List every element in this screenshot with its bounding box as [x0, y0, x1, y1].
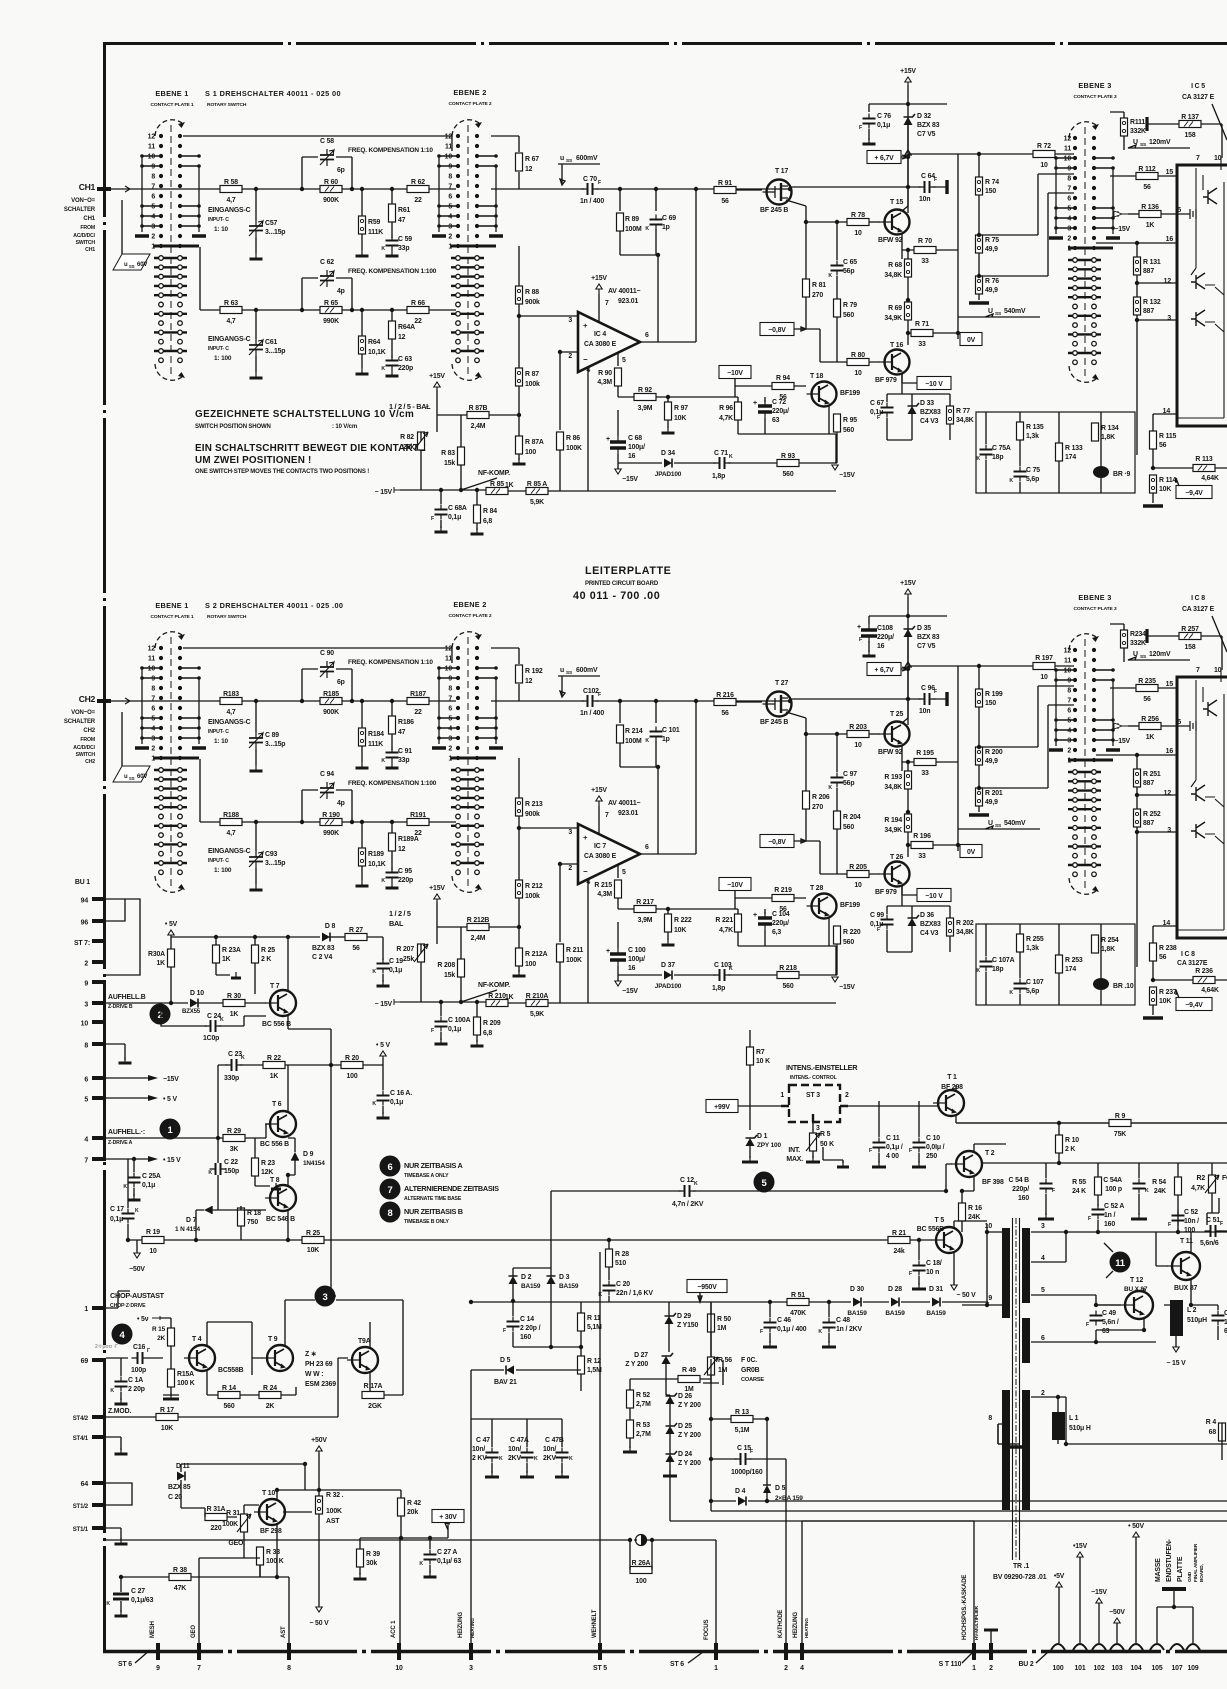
-15V supply under C68: [617, 980, 619, 986]
circle 4: [112, 1324, 133, 1345]
svg-text:EBENE 3: EBENE 3: [1078, 593, 1111, 602]
resistor R 222 10K: [665, 914, 672, 932]
svg-text:+50V: +50V: [311, 1437, 327, 1444]
capacitor C22 150p: [216, 1163, 221, 1175]
capacitor C54B 220p/160: [1040, 1184, 1053, 1189]
svg-text:2K: 2K: [157, 1335, 165, 1342]
svg-text:C16: C16: [133, 1344, 145, 1351]
svg-text:5,6n/6: 5,6n/6: [1200, 1240, 1219, 1247]
svg-text:220μ/: 220μ/: [877, 634, 894, 641]
connector pin ST1/1: [92, 1526, 106, 1530]
svg-text:R15A: R15A: [177, 1371, 194, 1378]
diode D3 BA159: [547, 1276, 556, 1284]
wire C25A: [133, 1159, 135, 1196]
svg-text:R 190: R 190: [322, 812, 340, 819]
svg-text:R64: R64: [368, 339, 380, 346]
wire R69 bottom: [907, 832, 909, 857]
svg-text:C 94: C 94: [320, 771, 334, 778]
svg-text:C61: C61: [265, 339, 277, 346]
wire R14 to R24: [240, 1394, 259, 1396]
svg-text:K: K: [976, 456, 980, 462]
svg-text:100μ/: 100μ/: [628, 956, 645, 963]
wire R95: [836, 944, 838, 975]
wire R136: [1128, 725, 1139, 727]
ground under C25A: [133, 1194, 135, 1200]
wire opamp pin4 to nf-komp rail: [587, 879, 589, 1003]
junction crt: [399, 1536, 403, 1540]
svg-text:R 23: R 23: [261, 1160, 275, 1167]
svg-text:1: 1: [714, 1665, 718, 1672]
wire opamp output: [640, 701, 696, 854]
wire T18 emitter down: [828, 405, 830, 434]
svg-text:3...15p: 3...15p: [265, 348, 285, 355]
wire R15A: [163, 1358, 179, 1395]
svg-text:C 27: C 27: [131, 1588, 145, 1595]
svg-text:6,8: 6,8: [483, 1030, 492, 1037]
svg-text:160: 160: [1018, 1195, 1029, 1202]
svg-text:3: 3: [568, 317, 572, 324]
svg-text:K: K: [976, 968, 980, 974]
wire st3 pin2 to T1: [848, 1105, 938, 1107]
wire C27A: [429, 1538, 431, 1573]
junction ladder dots: [977, 152, 981, 156]
svg-text:923.01: 923.01: [618, 298, 638, 305]
svg-text:R 14: R 14: [222, 1385, 236, 1392]
box -9,4V: [1176, 998, 1212, 1011]
potentiometer R2 4,7K FOK: [1209, 1175, 1216, 1193]
wire T16 emitter: [902, 885, 917, 895]
svg-text:ST 6: ST 6: [670, 1661, 684, 1668]
svg-text:C 19: C 19: [389, 958, 403, 965]
wire T16 base row: [957, 666, 959, 851]
svg-text:BF 298: BF 298: [260, 1528, 282, 1535]
svg-text:3: 3: [1167, 315, 1171, 322]
svg-text:R 17A: R 17A: [364, 1383, 383, 1390]
svg-text:FREQ. KOMPENSATION 1:100: FREQ. KOMPENSATION 1:100: [348, 268, 437, 275]
svg-text:ALTERNATE TIME BASE: ALTERNATE TIME BASE: [404, 1196, 462, 1202]
wire R76 gnd: [978, 806, 980, 812]
connector bump 109: [1186, 1644, 1200, 1650]
resistor R15 2K: [168, 1328, 175, 1346]
connector pin 8: [92, 1042, 106, 1046]
svg-text:8: 8: [388, 1208, 393, 1219]
wire T16 base row: [957, 154, 959, 339]
wire opamp pin7: [598, 294, 600, 322]
svg-text:C 2 V4: C 2 V4: [312, 954, 332, 961]
wire R131: [1136, 755, 1138, 795]
svg-text:5,9K: 5,9K: [530, 499, 544, 506]
svg-text:10: 10: [149, 1248, 157, 1255]
wire T8 emitter: [287, 1209, 289, 1240]
capacitor C 76 0,1u: [863, 119, 876, 124]
svg-text:BOARD,: BOARD,: [1199, 1564, 1205, 1582]
resistor R55 24K: [1095, 1177, 1102, 1195]
capacitor C 100 100u/16: [610, 954, 626, 960]
wire ladder taps: [979, 174, 1074, 276]
transistor T2 BF398: [956, 1151, 982, 1177]
resistor R 114 10K: [1150, 475, 1157, 493]
svg-text:R 196: R 196: [913, 833, 931, 840]
resistor R 209 6,8: [474, 1017, 481, 1035]
circle 6: [380, 1156, 401, 1177]
svg-text:−15V: −15V: [1091, 1589, 1107, 1596]
svg-text:5: 5: [1041, 1287, 1045, 1294]
capacitor C52A 1n/160: [1092, 1210, 1105, 1215]
svg-text:C 107: C 107: [1026, 979, 1044, 986]
resistor R 90 4,3M: [615, 368, 622, 386]
svg-text:6: 6: [448, 706, 452, 713]
svg-text:R 89: R 89: [625, 216, 639, 223]
svg-text:49,9: 49,9: [985, 758, 998, 765]
svg-text:R 194: R 194: [884, 817, 902, 824]
wire -950V stub: [698, 1293, 702, 1302]
resistor R 87B 2,4M: [467, 412, 489, 419]
transistor T10 BF298: [259, 1499, 285, 1525]
svg-text:4p: 4p: [337, 800, 345, 807]
svg-text:R 29: R 29: [227, 1128, 241, 1135]
wire D34 row: [618, 974, 716, 976]
capacitor C15 1000p/160: [741, 1453, 746, 1465]
svg-text:+ 6,7V: + 6,7V: [874, 667, 894, 674]
svg-text:100K: 100K: [222, 1521, 238, 1528]
resistor R 253 174: [1056, 955, 1063, 973]
wire R113: [1153, 467, 1227, 469]
box -10V left: [719, 366, 751, 379]
wire R136: [1128, 213, 1139, 215]
capacitor C20 22n/1.6KV: [603, 1286, 616, 1291]
svg-text:ST4/2: ST4/2: [73, 1416, 89, 1422]
svg-text:Z ∗: Z ∗: [305, 1351, 317, 1358]
wire T10 emitter: [276, 1523, 278, 1558]
svg-text:12: 12: [1064, 648, 1072, 655]
svg-text:10: 10: [854, 742, 862, 749]
svg-text:0,1μ: 0,1μ: [142, 1182, 155, 1189]
supply +5V T6: [382, 1051, 384, 1058]
svg-text:MAX.: MAX.: [786, 1156, 803, 1163]
svg-text:R 251: R 251: [1143, 771, 1161, 778]
svg-text:F: F: [598, 692, 601, 698]
ground under C57: [255, 253, 257, 259]
svg-text:R 62: R 62: [411, 179, 425, 186]
-15V arrow bal: [394, 487, 400, 493]
svg-text:R 204: R 204: [843, 814, 861, 821]
wire T9 base net: [207, 1322, 263, 1375]
svg-text:R 27: R 27: [349, 927, 363, 934]
svg-text:C 95: C 95: [398, 868, 412, 875]
svg-text:158: 158: [1184, 644, 1195, 651]
svg-text:BF 245 B: BF 245 B: [760, 719, 788, 726]
svg-text:220μ/: 220μ/: [772, 408, 789, 415]
wire C22: [217, 1138, 219, 1210]
resistor R 63 4,7: [220, 307, 242, 314]
ground under C16A: [382, 1112, 384, 1118]
resistor R189 10,1K: [359, 848, 366, 866]
resistor R 238 56: [1150, 943, 1157, 961]
svg-text:120mV: 120mV: [1149, 651, 1171, 658]
svg-text:R 33: R 33: [266, 1549, 280, 1556]
svg-text:BZX 85: BZX 85: [168, 1484, 191, 1491]
svg-text:160: 160: [1104, 1221, 1115, 1228]
wire D11 col: [181, 1464, 305, 1508]
svg-text:9: 9: [1067, 166, 1071, 173]
resistor R 219 56: [772, 895, 794, 902]
resistor R 58 4,7: [220, 186, 242, 193]
bottom pin FOCUS: [714, 1643, 718, 1660]
ground under C47: [491, 1471, 493, 1477]
wire D4 row: [711, 1459, 1227, 1501]
svg-text:R 74: R 74: [985, 179, 999, 186]
resistor R 91 56: [714, 187, 736, 194]
svg-text:VON~O=: VON~O=: [71, 710, 95, 716]
resistor R 210A 5,9K: [526, 1000, 548, 1007]
svg-text:C 16 A.: C 16 A.: [390, 1090, 412, 1097]
capacitor C46 0,1u/400: [764, 1323, 777, 1328]
svg-text:R 257: R 257: [1181, 626, 1199, 633]
svg-text:10n/: 10n/: [543, 1446, 556, 1453]
svg-text:R 205: R 205: [849, 864, 867, 871]
wire R82: [420, 432, 422, 490]
svg-text:R 94: R 94: [776, 375, 790, 382]
rotary switch S2 contact plate 1 (EBENE1): [170, 637, 172, 887]
svg-text:560: 560: [843, 824, 854, 831]
svg-text:D 4: D 4: [735, 1488, 746, 1495]
svg-text:R 217: R 217: [636, 899, 654, 906]
svg-text:−15V: −15V: [163, 1076, 179, 1083]
svg-text:+: +: [753, 400, 757, 407]
svg-text:R 83: R 83: [441, 450, 455, 457]
svg-text:6: 6: [645, 844, 649, 851]
svg-text:R 216: R 216: [716, 692, 734, 699]
svg-text:100M: 100M: [625, 226, 642, 233]
diode D26 ZY200: [666, 1396, 675, 1404]
resistor R12 1,5M: [578, 1356, 585, 1374]
ground under C63: [391, 882, 393, 888]
svg-text:R 218: R 218: [779, 965, 797, 972]
svg-text:Z Y 200: Z Y 200: [678, 1460, 701, 1467]
resistor R 212A 100: [516, 948, 523, 966]
svg-text:R 26A: R 26A: [632, 1560, 651, 1567]
svg-text:2: 2: [989, 1665, 993, 1672]
svg-text:C 58: C 58: [320, 138, 334, 145]
op-amp IC 4 CA3080E: [578, 312, 640, 372]
diode D28 BA159: [891, 1298, 899, 1307]
wire R83: [460, 927, 462, 1002]
svg-text:5: 5: [1177, 207, 1181, 214]
svg-text:−9,4V: −9,4V: [1185, 1002, 1203, 1009]
wire C67: [887, 885, 902, 952]
wire T16 emitter: [902, 373, 917, 383]
wire pin3 net: [519, 246, 578, 368]
ground under C10: [918, 1161, 920, 1167]
svg-text:12: 12: [445, 134, 453, 141]
resistor R 81 270: [803, 279, 810, 297]
wire L1: [1057, 1397, 1059, 1444]
resistor R 197 10: [1033, 663, 1055, 670]
svg-text:2: 2: [568, 353, 572, 360]
wire pin16 row: [1096, 754, 1177, 756]
svg-text:LEITERPLATTE: LEITERPLATTE: [585, 565, 671, 577]
svg-text:3: 3: [1067, 738, 1071, 745]
-15V supply T16: [834, 465, 836, 470]
wire C18: [918, 1240, 920, 1285]
svg-text:R184: R184: [368, 731, 384, 738]
svg-text:10: 10: [854, 882, 862, 889]
resistor R15A 100K: [168, 1369, 175, 1387]
svg-text:1: 100: 1: 100: [214, 867, 232, 874]
wire R50: [710, 1302, 712, 1359]
svg-text:1p: 1p: [662, 736, 670, 743]
transistor T 15 BFW92: [885, 210, 910, 235]
wire T18 emitter down: [828, 917, 830, 946]
svg-text:F: F: [431, 516, 434, 522]
wire pin3 row: [1137, 832, 1177, 967]
svg-text:SS: SS: [566, 158, 572, 164]
svg-text:R 58: R 58: [224, 179, 238, 186]
capacitor C 71 1,8p: [720, 457, 725, 469]
svg-text:100M: 100M: [625, 738, 642, 745]
svg-text:R 202: R 202: [956, 920, 974, 927]
svg-text:AST: AST: [326, 1518, 340, 1525]
svg-text:3,9M: 3,9M: [638, 917, 653, 924]
svg-text:10n: 10n: [919, 708, 930, 715]
svg-text:332K: 332K: [1130, 640, 1146, 647]
svg-text:EIN SCHALTSCHRITT BEWEGT DI: EIN SCHALTSCHRITT BEWEGT DIE KONTAKTE: [195, 443, 426, 454]
svg-text:R 39: R 39: [366, 1551, 380, 1558]
inductor L1 510uH: [1052, 1412, 1065, 1440]
wire BR9: [1100, 924, 1102, 1005]
svg-text:R 235: R 235: [1138, 678, 1156, 685]
svg-text:EBENE 1: EBENE 1: [155, 89, 188, 98]
svg-text:• 5ν: • 5ν: [137, 1316, 149, 1323]
svg-text:K: K: [381, 246, 385, 252]
wire C50: [1191, 1305, 1218, 1340]
resistor R29 3K: [223, 1135, 245, 1142]
wire wehnelt line: [599, 1252, 601, 1643]
svg-text:1000p/160: 1000p/160: [731, 1469, 763, 1476]
svg-text:10: 10: [445, 666, 453, 673]
svg-text:R 13: R 13: [735, 1409, 749, 1416]
svg-text:T 5: T 5: [935, 1217, 945, 1224]
svg-text:6: 6: [1041, 1335, 1045, 1342]
svg-text:9: 9: [448, 164, 452, 171]
resistor R 235 56: [1136, 685, 1158, 692]
resistor R 218 560: [777, 972, 799, 979]
svg-text:IC 7: IC 7: [594, 843, 606, 850]
diode D4: [738, 1497, 746, 1506]
svg-text:GEO.: GEO.: [228, 1540, 245, 1547]
svg-text:T 12: T 12: [1130, 1277, 1143, 1284]
wire R38 row: [121, 1558, 289, 1643]
svg-text:10 K: 10 K: [756, 1058, 770, 1065]
svg-text:4,7K: 4,7K: [719, 927, 733, 934]
svg-text:150: 150: [985, 700, 996, 707]
svg-text:4,7: 4,7: [226, 709, 235, 716]
wire T17 to R78: [869, 733, 880, 735]
svg-text:T 26: T 26: [890, 854, 903, 861]
wire st6 slash: [135, 1650, 150, 1663]
svg-text:7: 7: [605, 300, 609, 307]
transformer secondary bar 1: [1022, 1228, 1030, 1303]
svg-text:9: 9: [988, 1295, 992, 1302]
svg-text:0,1μ: 0,1μ: [390, 1099, 403, 1106]
connector bump 107: [1170, 1644, 1184, 1650]
svg-text:D 2: D 2: [521, 1274, 532, 1281]
svg-text:K: K: [645, 226, 649, 232]
svg-text:R 31A: R 31A: [207, 1506, 226, 1513]
input arrow: [120, 698, 130, 704]
resistor R 97 10K: [665, 402, 672, 420]
svg-text:15k: 15k: [444, 460, 455, 467]
svg-text:3: 3: [568, 829, 572, 836]
svg-text:R191: R191: [410, 812, 426, 819]
trimmer capacitor C 89 3...15p: [249, 738, 263, 743]
capacitor C 96 10n: [925, 693, 930, 705]
svg-text:510μH: 510μH: [1187, 1317, 1207, 1324]
svg-text:R 132: R 132: [1143, 299, 1161, 306]
svg-text:8: 8: [84, 1043, 88, 1050]
ground st4/1: [120, 1448, 122, 1454]
svg-text:GR0B: GR0B: [741, 1367, 760, 1374]
svg-text:560: 560: [223, 1403, 234, 1410]
svg-text:+15V: +15V: [900, 68, 916, 75]
resistor R 203 10: [847, 731, 869, 738]
svg-text:3...15p: 3...15p: [265, 741, 285, 748]
svg-text:7: 7: [388, 1185, 393, 1196]
diode D5 2xBA159: [763, 1485, 771, 1493]
potentiometer R 85 1K: [486, 488, 508, 495]
bottom pin HEIZUNG 4: [800, 1643, 804, 1660]
svg-text:6p: 6p: [337, 679, 345, 686]
wire T1 emitter: [956, 1114, 1227, 1123]
svg-text:R 115: R 115: [1159, 433, 1177, 440]
ground under C11: [878, 1161, 880, 1167]
svg-text:10K: 10K: [1159, 998, 1171, 1005]
box -10V right: [917, 889, 951, 902]
wire +5v to C16A: [382, 1058, 384, 1090]
wire C68A: [440, 1002, 442, 1040]
svg-text:UM ZWEI POSITIONEN !: UM ZWEI POSITIONEN !: [195, 455, 311, 466]
resistor R14 560: [218, 1392, 240, 1399]
resistor R 214 100M: [617, 725, 624, 743]
wire R70 right: [936, 249, 958, 251]
svg-text:• 15 V: • 15 V: [163, 1157, 181, 1164]
wire R39: [360, 1538, 430, 1575]
junction masse: [1172, 1605, 1176, 1609]
-15V supply under C68: [617, 468, 619, 474]
capacitor C52 10n/100: [1172, 1216, 1185, 1221]
svg-text:ST1/1: ST1/1: [73, 1527, 89, 1533]
svg-text:C 25A: C 25A: [142, 1173, 161, 1180]
svg-text:750: 750: [247, 1219, 258, 1226]
wire D1 gnd: [749, 1146, 751, 1158]
svg-text:220p: 220p: [398, 365, 413, 372]
svg-text:24K: 24K: [1154, 1188, 1166, 1195]
wire R80: [820, 329, 880, 362]
capacitor bar + resistor R 137 158: [1145, 117, 1148, 131]
svg-text:K: K: [135, 1208, 139, 1214]
resistor R 87A 100: [516, 436, 523, 454]
connector pin 1 chop: [92, 1306, 106, 1310]
svg-text:D 31: D 31: [929, 1286, 943, 1293]
resistor R11 5,1M: [578, 1313, 585, 1331]
svg-text:56p: 56p: [843, 268, 854, 275]
supply +50V crt: [318, 1446, 320, 1453]
svg-text:INTENS.-EINSTELLER: INTENS.-EINSTELLER: [786, 1063, 858, 1072]
wire R90 bottom to R92: [618, 898, 634, 909]
svg-text:R 199: R 199: [985, 691, 1003, 698]
resistor R 236 4,64K: [1193, 977, 1215, 984]
wire pin12 row: [1137, 794, 1177, 796]
